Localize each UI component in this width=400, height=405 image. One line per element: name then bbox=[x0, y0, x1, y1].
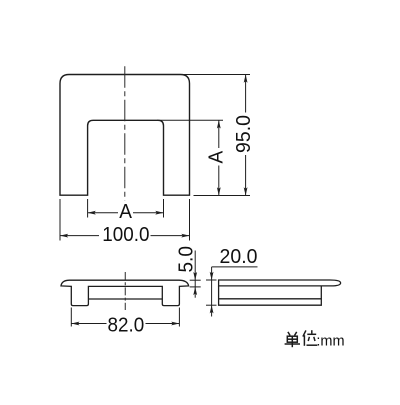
extension lines for 82.0 bbox=[70, 308, 72, 327]
side view body bbox=[219, 286, 322, 305]
kanji 位 strokes bbox=[303, 330, 317, 346]
dimension 20.0 line bbox=[211, 267, 213, 317]
dimension 95.0 line bbox=[245, 75, 247, 113]
dimension A horizontal line bbox=[88, 212, 118, 214]
front view centerline bbox=[124, 66, 126, 200]
svg-text::mm: :mm bbox=[316, 333, 344, 349]
dimension 20.0 leader bbox=[212, 266, 258, 268]
dimension A vertical line bbox=[218, 120, 220, 148]
extension line bottom right bbox=[194, 195, 251, 197]
side view inner line bbox=[219, 298, 322, 300]
side view plate (bottom-right) bbox=[219, 280, 341, 286]
dimension 5.0 line bbox=[194, 251, 196, 298]
svg-text:82.0: 82.0 bbox=[108, 314, 145, 337]
extension line notch top bbox=[157, 119, 223, 121]
svg-text:5.0: 5.0 bbox=[175, 246, 198, 272]
svg-text:20.0: 20.0 bbox=[220, 246, 258, 269]
dimension 100.0 line bbox=[60, 235, 99, 237]
extension lines below front view bbox=[59, 199, 61, 241]
dimension 82.0 line bbox=[71, 323, 106, 325]
profile view outline (bottom-left) bbox=[61, 280, 189, 305]
profile view centerline bbox=[124, 272, 126, 310]
svg-text:95.0: 95.0 bbox=[233, 115, 256, 153]
svg-text:A: A bbox=[205, 150, 228, 163]
svg-text:A: A bbox=[119, 200, 132, 223]
extension line top right bbox=[183, 74, 250, 76]
profile view inner bottom line bbox=[88, 298, 162, 300]
svg-text:100.0: 100.0 bbox=[102, 224, 149, 247]
kanji 単 strokes bbox=[285, 332, 300, 347]
front view outline bbox=[60, 75, 190, 196]
